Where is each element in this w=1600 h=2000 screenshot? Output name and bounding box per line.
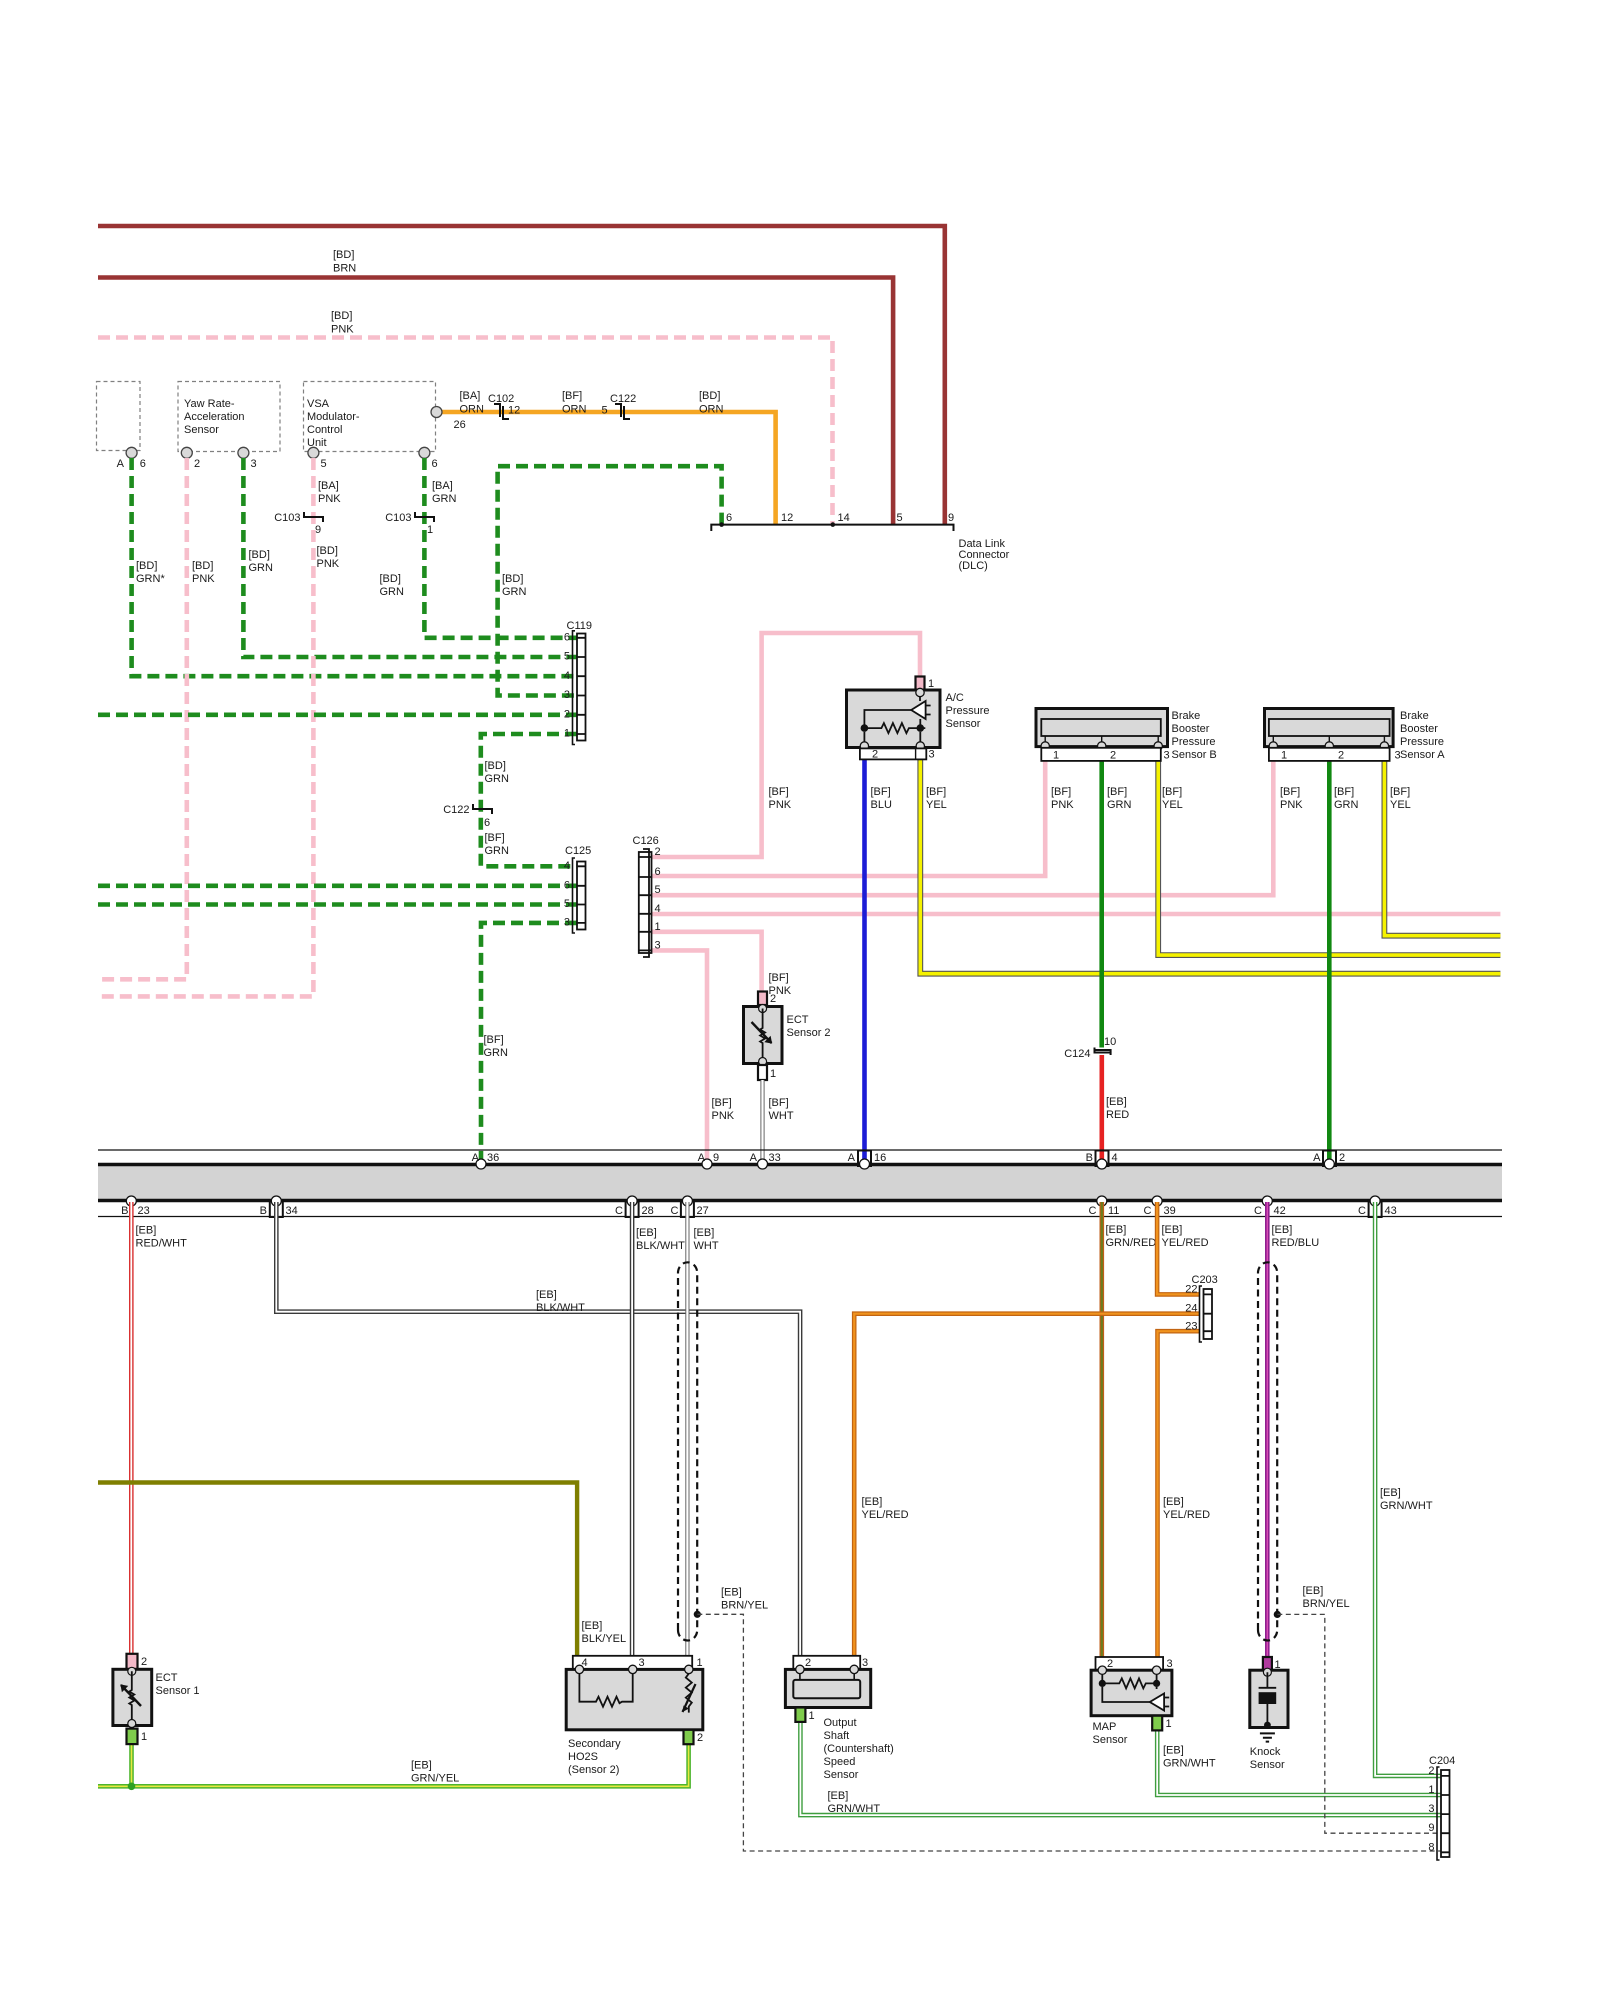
svg-text:9: 9	[713, 1152, 719, 1164]
svg-text:2: 2	[1428, 1765, 1434, 1777]
svg-text:Sensor 1: Sensor 1	[156, 1685, 200, 1697]
svg-text:24: 24	[1185, 1303, 1197, 1315]
svg-text:[BF]: [BF]	[485, 832, 505, 844]
terminal 5 on VSA unit	[308, 447, 319, 458]
svg-text:A: A	[1313, 1152, 1321, 1164]
connector C103 (on VSA 5 wire)	[304, 512, 323, 522]
svg-text:PNK: PNK	[1051, 799, 1074, 811]
svg-text:BLU: BLU	[871, 799, 892, 811]
wire [BF] PNK C126 pin 2 to A/C Pressure Sensor pin 1	[652, 633, 921, 857]
wire [BD] PNK from Yaw 2 down-left	[98, 458, 187, 979]
svg-text:6: 6	[726, 512, 732, 524]
svg-text:43: 43	[1385, 1205, 1397, 1217]
svg-text:[BA]: [BA]	[460, 390, 481, 402]
svg-text:ORN: ORN	[460, 404, 485, 416]
wire [EB] YEL/RED C203 pin 23 to MAP Sensor pin 3	[1158, 1331, 1200, 1657]
svg-text:[EB]: [EB]	[1303, 1585, 1324, 1597]
wire [BD] GRN long to C125 pin 6	[98, 883, 577, 888]
terminal C43 (with lock)	[1369, 1200, 1382, 1217]
svg-text:MAP: MAP	[1093, 1721, 1117, 1733]
svg-text:2: 2	[1338, 750, 1344, 762]
svg-text:6: 6	[564, 880, 570, 892]
shield around C27 WHT wire	[678, 1262, 697, 1640]
svg-text:42: 42	[1274, 1205, 1286, 1217]
wire [BF] YEL Brake Booster B pin 3 right	[1158, 748, 1500, 955]
svg-text:Secondary: Secondary	[568, 1738, 621, 1750]
svg-text:5: 5	[321, 458, 327, 470]
wire [BF] GRN Brake Booster A pin 2 to ECM A2	[1327, 748, 1332, 1163]
svg-text:[BA]: [BA]	[432, 480, 453, 492]
svg-text:A: A	[750, 1152, 758, 1164]
svg-text:Booster: Booster	[1172, 723, 1210, 735]
svg-text:Sensor: Sensor	[946, 718, 981, 730]
svg-text:2: 2	[564, 709, 570, 721]
svg-text:PNK: PNK	[317, 558, 340, 570]
svg-text:C: C	[1254, 1205, 1262, 1217]
connector C103 (on VSA 6 wire)	[415, 512, 434, 522]
svg-text:23: 23	[138, 1205, 150, 1217]
terminal C28 (with lock)	[626, 1200, 639, 1217]
connector C122 (inline, on orange wire)	[615, 404, 630, 419]
svg-text:BLK/WHT: BLK/WHT	[636, 1240, 685, 1252]
ECM/PCM bus band	[98, 1150, 1502, 1217]
svg-text:[BF]: [BF]	[1390, 786, 1410, 798]
svg-text:2: 2	[141, 1656, 147, 1668]
connector C122 (mid, on green wire)	[473, 804, 492, 814]
svg-text:2: 2	[194, 458, 200, 470]
svg-text:Sensor 2: Sensor 2	[787, 1027, 831, 1039]
svg-text:Modulator-: Modulator-	[307, 411, 360, 423]
svg-text:Sensor: Sensor	[824, 1769, 859, 1781]
svg-text:YEL/RED: YEL/RED	[1162, 1237, 1209, 1249]
wire [BA]/[BD] GRN from VSA 6 to C119 pin 6	[424, 458, 577, 638]
terminal C27 (with lock)	[681, 1200, 694, 1217]
svg-text:BRN/YEL: BRN/YEL	[721, 1600, 768, 1612]
svg-text:[BF]: [BF]	[484, 1034, 504, 1046]
svg-text:[BF]: [BF]	[712, 1097, 732, 1109]
svg-text:ECT: ECT	[156, 1672, 178, 1684]
svg-text:A: A	[848, 1152, 856, 1164]
svg-text:Brake: Brake	[1172, 710, 1201, 722]
svg-text:Unit: Unit	[307, 437, 327, 449]
svg-text:ORN: ORN	[562, 404, 587, 416]
svg-text:GRN: GRN	[1334, 799, 1359, 811]
svg-text:WHT: WHT	[694, 1240, 719, 1252]
svg-text:YEL/RED: YEL/RED	[1163, 1509, 1210, 1521]
svg-text:Sensor B: Sensor B	[1172, 749, 1217, 761]
svg-text:3: 3	[1164, 750, 1170, 762]
svg-text:[EB]: [EB]	[1162, 1224, 1183, 1236]
svg-text:[BD]: [BD]	[380, 573, 401, 585]
wire [EB] YEL/RED C203 pin 24 to Output Shaft Speed Sensor pin 3	[854, 1314, 1199, 1656]
svg-text:Shaft: Shaft	[824, 1730, 850, 1742]
svg-text:PNK: PNK	[712, 1110, 735, 1122]
wire [BF] PNK C126 pin 4 long right	[652, 912, 1501, 917]
wire [BF] YEL A/C Sensor pin 3 right	[920, 748, 1500, 974]
svg-text:14: 14	[838, 512, 850, 524]
wire [BA] ORN from VSA pin 26	[440, 412, 776, 525]
wire [EB] GRN/WHT Output Shaft Speed Sensor pin 1 to C204 pin 3	[800, 1722, 1441, 1815]
terminal B23	[126, 1196, 136, 1206]
svg-text:[BD]: [BD]	[699, 390, 720, 402]
svg-text:GRN: GRN	[1107, 799, 1132, 811]
svg-text:GRN/YEL: GRN/YEL	[411, 1773, 459, 1785]
svg-text:11: 11	[1108, 1205, 1119, 1217]
terminal 3 on Yaw sensor	[238, 447, 249, 458]
svg-text:36: 36	[487, 1152, 499, 1164]
svg-text:[EB]: [EB]	[1380, 1487, 1401, 1499]
svg-text:B: B	[260, 1205, 267, 1217]
wire [BF] WHT ECT Sensor 2 pin 1 to ECM A33	[760, 1080, 764, 1163]
component A/C Pressure Sensor	[847, 677, 990, 761]
wire [BD] GRN C119 pin 1 to C125 pin 4 via C122	[481, 734, 577, 866]
svg-text:GRN: GRN	[502, 586, 527, 598]
svg-text:Output: Output	[824, 1717, 857, 1729]
svg-text:[BF]: [BF]	[926, 786, 946, 798]
svg-text:[EB]: [EB]	[1272, 1224, 1293, 1236]
svg-text:9: 9	[948, 512, 954, 524]
svg-text:3: 3	[1167, 1658, 1173, 1670]
svg-text:[BF]: [BF]	[769, 972, 789, 984]
svg-text:Yaw Rate-: Yaw Rate-	[184, 398, 235, 410]
svg-text:6: 6	[432, 458, 438, 470]
svg-text:[BD]: [BD]	[192, 560, 213, 572]
terminal A33	[758, 1159, 768, 1169]
svg-text:Pressure: Pressure	[946, 705, 990, 717]
svg-text:[EB]: [EB]	[411, 1760, 432, 1772]
svg-text:[EB]: [EB]	[694, 1227, 715, 1239]
svg-text:12: 12	[508, 405, 520, 417]
wire [EB] BLK/WHT B34 to Output Shaft Speed Sensor pin 2	[276, 1202, 800, 1656]
terminal 6 on VSA unit	[419, 447, 430, 458]
svg-text:B: B	[121, 1205, 128, 1217]
svg-text:GRN: GRN	[249, 562, 274, 574]
svg-text:6: 6	[484, 817, 490, 829]
box unnamed unit (dashed)	[97, 382, 141, 451]
svg-text:[BD]: [BD]	[317, 545, 338, 557]
svg-text:9: 9	[1428, 1822, 1434, 1834]
svg-text:[BD]: [BD]	[333, 249, 354, 261]
svg-text:(Countershaft): (Countershaft)	[824, 1743, 894, 1755]
box Yaw Rate-Acceleration Sensor (dashed)	[178, 382, 280, 452]
svg-text:A: A	[472, 1152, 480, 1164]
svg-text:YEL: YEL	[926, 799, 947, 811]
svg-text:C122: C122	[443, 804, 469, 816]
wire [BD] BRN rail 2	[98, 278, 893, 525]
svg-text:C: C	[1358, 1205, 1366, 1217]
svg-text:VSA: VSA	[307, 398, 330, 410]
wire [BF] YEL Brake Booster A pin 3 right	[1384, 748, 1500, 936]
svg-text:3: 3	[929, 749, 935, 761]
svg-text:8: 8	[1428, 1841, 1434, 1853]
svg-text:16: 16	[874, 1152, 886, 1164]
wire [BF] BLU A/C Sensor pin 2 to ECM A16	[862, 748, 867, 1163]
svg-text:6: 6	[655, 866, 661, 878]
svg-text:B: B	[1086, 1152, 1093, 1164]
svg-text:9: 9	[315, 524, 321, 536]
svg-text:[EB]: [EB]	[828, 1790, 849, 1802]
svg-text:GRN: GRN	[485, 845, 510, 857]
svg-text:C102: C102	[488, 393, 514, 405]
svg-text:5: 5	[564, 898, 570, 910]
wire [BD] GRN from DLC pin 6 to C119 pin 3	[498, 466, 722, 695]
svg-text:[EB]: [EB]	[636, 1227, 657, 1239]
svg-text:[BD]: [BD]	[331, 310, 352, 322]
svg-text:GRN: GRN	[380, 586, 405, 598]
wire [BA]/[BD] PNK from VSA 5 down-left	[98, 458, 313, 996]
component Secondary HO2S (Sensor 2)	[566, 1656, 703, 1776]
svg-text:1: 1	[427, 524, 433, 536]
wire [BD] PNK dashed rail	[98, 338, 833, 525]
svg-text:1: 1	[655, 921, 661, 933]
svg-text:C103: C103	[274, 512, 300, 524]
terminal 2 on Yaw sensor	[181, 447, 192, 458]
svg-text:5: 5	[564, 651, 570, 663]
svg-text:3: 3	[564, 689, 570, 701]
svg-text:22: 22	[1185, 1284, 1197, 1296]
svg-text:2: 2	[805, 1657, 811, 1669]
svg-text:2: 2	[1339, 1152, 1345, 1164]
svg-text:GRN/WHT: GRN/WHT	[1163, 1758, 1216, 1770]
wire [BD] GRN long to C125 pin 5	[98, 902, 577, 907]
svg-text:[BD]: [BD]	[485, 760, 506, 772]
wire [BF] PNK C126 pin 5 to Brake Booster A pin 1	[652, 748, 1274, 895]
svg-text:6: 6	[140, 458, 146, 470]
svg-text:[EB]: [EB]	[1163, 1496, 1184, 1508]
terminal A36	[476, 1159, 486, 1169]
svg-text:HO2S: HO2S	[568, 1751, 598, 1763]
svg-text:2: 2	[655, 846, 661, 858]
svg-text:[EB]: [EB]	[721, 1587, 742, 1599]
svg-text:ECT: ECT	[787, 1014, 809, 1026]
svg-text:3: 3	[862, 1657, 868, 1669]
svg-text:3: 3	[564, 917, 570, 929]
svg-text:WHT: WHT	[769, 1110, 794, 1122]
wire [BF] PNK C126 pin 3 to ECM A9	[652, 950, 708, 1163]
terminal A2 (with lock)	[1323, 1151, 1336, 1167]
svg-text:[BF]: [BF]	[1334, 786, 1354, 798]
svg-text:26: 26	[454, 419, 466, 431]
svg-text:2: 2	[1110, 750, 1116, 762]
svg-text:A: A	[698, 1152, 706, 1164]
svg-text:PNK: PNK	[331, 324, 354, 336]
svg-text:1: 1	[564, 728, 570, 740]
svg-text:RED/WHT: RED/WHT	[136, 1238, 188, 1250]
component Brake Booster Pressure Sensor B	[1036, 709, 1217, 762]
component Output Shaft (Countershaft) Speed Sensor	[785, 1656, 893, 1781]
box VSA Modulator-Control Unit (dashed)	[304, 382, 436, 452]
svg-text:4: 4	[1112, 1152, 1118, 1164]
svg-text:1: 1	[1281, 750, 1287, 762]
connector C124	[1095, 1048, 1111, 1056]
svg-text:3: 3	[251, 458, 257, 470]
ground	[1260, 1733, 1275, 1741]
svg-text:39: 39	[1164, 1205, 1176, 1217]
svg-text:GRN: GRN	[485, 773, 510, 785]
wire [EB] GRN/YEL ECT Sensor 1 pin 1 / Secondary HO2S pin 2	[98, 1744, 689, 1786]
svg-text:RED/BLU: RED/BLU	[1272, 1237, 1320, 1249]
wire [EB] GRN/RED C11 to MAP Sensor pin 2	[1100, 1202, 1105, 1657]
svg-text:2: 2	[697, 1732, 703, 1744]
svg-text:BLK/WHT: BLK/WHT	[536, 1302, 585, 1314]
svg-text:C: C	[671, 1205, 679, 1217]
svg-text:1: 1	[928, 678, 934, 690]
component MAP Sensor	[1091, 1657, 1173, 1746]
svg-text:(DLC): (DLC)	[959, 560, 988, 572]
svg-text:1: 1	[1428, 1784, 1434, 1796]
svg-text:C125: C125	[565, 845, 591, 857]
svg-text:[BF]: [BF]	[1280, 786, 1300, 798]
svg-text:BLK/YEL: BLK/YEL	[582, 1633, 627, 1645]
wire [BD] GRN* from A6 to C119 pin 4	[132, 458, 577, 676]
wire [EB] RED/WHT B23 to ECT Sensor 1 pin 2	[129, 1202, 134, 1654]
svg-text:5: 5	[897, 512, 903, 524]
terminal C39	[1152, 1196, 1162, 1206]
svg-text:GRN/RED: GRN/RED	[1106, 1237, 1157, 1249]
component Brake Booster Pressure Sensor A	[1265, 709, 1446, 762]
svg-text:PNK: PNK	[192, 573, 215, 585]
svg-text:Pressure: Pressure	[1172, 736, 1216, 748]
svg-text:[EB]: [EB]	[136, 1225, 157, 1237]
component ECT Sensor 1	[113, 1654, 200, 1744]
svg-text:C103: C103	[385, 512, 411, 524]
svg-text:Brake: Brake	[1400, 710, 1429, 722]
svg-text:5: 5	[655, 884, 661, 896]
wire [EB] WHT C27 to Secondary HO2S pin 1	[685, 1202, 689, 1656]
connector C102 (inline)	[494, 404, 509, 419]
svg-text:Sensor: Sensor	[1250, 1759, 1285, 1771]
svg-text:GRN/WHT: GRN/WHT	[1380, 1500, 1433, 1512]
svg-text:C: C	[615, 1205, 623, 1217]
component ECT Sensor 2	[744, 992, 831, 1081]
svg-text:[BF]: [BF]	[1051, 786, 1071, 798]
svg-text:Acceleration: Acceleration	[184, 411, 245, 423]
svg-text:4: 4	[564, 860, 570, 872]
wire [EB] BLK/YEL to Secondary HO2S pin 4	[98, 1483, 577, 1656]
svg-text:[EB]: [EB]	[862, 1496, 883, 1508]
svg-text:4: 4	[655, 903, 661, 915]
svg-text:2: 2	[872, 749, 878, 761]
svg-text:Control: Control	[307, 424, 342, 436]
svg-text:23: 23	[1185, 1321, 1197, 1333]
svg-text:[BF]: [BF]	[562, 390, 582, 402]
svg-text:6: 6	[564, 632, 570, 644]
terminal A16 (with lock)	[858, 1151, 871, 1167]
svg-text:34: 34	[286, 1205, 298, 1217]
svg-text:1: 1	[1166, 1718, 1172, 1730]
svg-text:GRN: GRN	[432, 493, 457, 505]
svg-text:12: 12	[781, 512, 793, 524]
svg-text:Sensor: Sensor	[184, 424, 219, 436]
terminal A9	[702, 1159, 712, 1169]
svg-text:[BD]: [BD]	[502, 573, 523, 585]
svg-text:[BF]: [BF]	[1162, 786, 1182, 798]
wire [EB] GRN/WHT C43 to C204 pin 2	[1375, 1202, 1441, 1776]
terminal A6 on unnamed box	[126, 447, 137, 458]
svg-text:1: 1	[770, 1068, 776, 1080]
svg-text:[BF]: [BF]	[1107, 786, 1127, 798]
svg-text:C122: C122	[610, 393, 636, 405]
svg-text:3: 3	[655, 939, 661, 951]
wire [BF] GRN Brake Booster B pin 2 to C124	[1099, 748, 1104, 1048]
svg-text:[EB]: [EB]	[536, 1289, 557, 1301]
svg-text:A: A	[117, 458, 125, 470]
svg-text:[EB]: [EB]	[1106, 1224, 1127, 1236]
svg-text:PNK: PNK	[318, 493, 341, 505]
svg-text:1: 1	[809, 1710, 815, 1722]
wire [BD] BRN rail 1 (top)	[98, 226, 945, 525]
svg-text:1: 1	[697, 1657, 703, 1669]
svg-text:C: C	[1089, 1205, 1097, 1217]
svg-text:ORN: ORN	[699, 404, 724, 416]
svg-text:27: 27	[697, 1205, 709, 1217]
terminal B4 (with lock)	[1096, 1151, 1109, 1167]
svg-text:Sensor A: Sensor A	[1400, 749, 1445, 761]
wire [EB] BLK/WHT C28 to Secondary HO2S pin 3	[630, 1202, 635, 1656]
svg-text:Pressure: Pressure	[1400, 736, 1444, 748]
svg-text:[BD]: [BD]	[249, 549, 270, 561]
svg-text:[EB]: [EB]	[582, 1620, 603, 1632]
svg-text:[BA]: [BA]	[318, 480, 339, 492]
wire [BD] GRN long to C119 pin 2	[98, 712, 577, 717]
terminal C42	[1262, 1196, 1272, 1206]
terminal B34 (with lock)	[270, 1200, 283, 1217]
svg-text:BRN/YEL: BRN/YEL	[1303, 1598, 1350, 1610]
svg-text:5: 5	[602, 405, 608, 417]
svg-text:BRN: BRN	[333, 263, 356, 275]
wire [BF] PNK C126 pin 6 to Brake Booster B pin 1	[652, 748, 1046, 876]
svg-text:C: C	[1144, 1205, 1152, 1217]
svg-text:33: 33	[769, 1152, 781, 1164]
svg-text:Knock: Knock	[1250, 1746, 1281, 1758]
svg-text:PNK: PNK	[769, 799, 792, 811]
wire [EB] BRN/YEL shield drain (Knock) to C204 pin 9	[1277, 1614, 1441, 1833]
svg-text:[BF]: [BF]	[769, 786, 789, 798]
svg-text:28: 28	[642, 1205, 654, 1217]
svg-text:2: 2	[1107, 1658, 1113, 1670]
svg-text:1: 1	[141, 1731, 147, 1743]
wire [BF] GRN C125 pin 3 to ECM A36	[481, 923, 577, 1163]
svg-text:GRN*: GRN*	[136, 573, 165, 585]
svg-text:RED: RED	[1106, 1109, 1129, 1121]
svg-text:YEL: YEL	[1390, 799, 1411, 811]
svg-text:YEL/RED: YEL/RED	[862, 1509, 909, 1521]
wire [EB] YEL/RED C39 to C203 pin 22	[1157, 1202, 1200, 1294]
svg-text:3: 3	[639, 1657, 645, 1669]
svg-text:1: 1	[1053, 750, 1059, 762]
svg-text:(Sensor 2): (Sensor 2)	[568, 1764, 619, 1776]
svg-text:[EB]: [EB]	[1163, 1745, 1184, 1757]
wire [EB] GRN/WHT MAP Sensor pin 1 to C204 pin 1	[1157, 1730, 1441, 1795]
component Knock Sensor	[1250, 1657, 1288, 1771]
svg-text:[BF]: [BF]	[769, 1097, 789, 1109]
svg-text:[BD]: [BD]	[136, 560, 157, 572]
svg-text:C124: C124	[1064, 1048, 1090, 1060]
svg-text:[BF]: [BF]	[871, 786, 891, 798]
svg-text:3: 3	[1428, 1803, 1434, 1815]
svg-text:[EB]: [EB]	[1106, 1096, 1127, 1108]
svg-text:Sensor: Sensor	[1093, 1734, 1128, 1746]
svg-text:4: 4	[564, 670, 570, 682]
svg-text:Booster: Booster	[1400, 723, 1438, 735]
svg-text:C119: C119	[567, 620, 592, 632]
svg-text:PNK: PNK	[1280, 799, 1303, 811]
wire [EB] BRN/YEL shield drain (HO2S) to C204 pin 8	[697, 1614, 1441, 1851]
wire [EB] RED/BLU C42 to Knock Sensor pin 1	[1265, 1202, 1270, 1657]
shield around C42 RED/BLU wire	[1258, 1262, 1277, 1640]
svg-text:YEL: YEL	[1162, 799, 1183, 811]
wire [BF] PNK C126 pin 1 to ECT Sensor 2 pin 2	[652, 932, 762, 992]
